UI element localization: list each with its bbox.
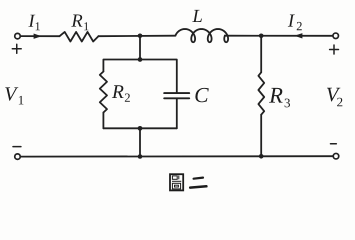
inductor L (175, 29, 228, 42)
wire top rail R1 to L (98, 35, 175, 38)
label R2 (112, 85, 130, 102)
terminal bottom-right (333, 153, 339, 159)
junction dot bottom rail center (138, 154, 143, 159)
wire C bottom lead (176, 99, 178, 128)
wire bottom rail (21, 155, 334, 157)
junction dot bottom rail R3 (259, 154, 264, 159)
wire parallel loop top (103, 60, 176, 93)
arrow I1 (34, 34, 42, 39)
wire parallel loop bottom (103, 127, 176, 129)
resistor R1 (60, 32, 99, 42)
capacitor C bottom plate (164, 97, 189, 99)
terminal top-right (333, 33, 339, 39)
junction dot R3 top (259, 34, 264, 39)
junction dot loop bottom (138, 126, 143, 131)
minus sign bottom-left (13, 146, 21, 148)
junction dot node A top (138, 34, 143, 39)
wire top rail left segment (20, 35, 59, 37)
label C (195, 88, 208, 102)
label I2 (288, 14, 302, 30)
label R3 (269, 88, 290, 107)
label V2 (327, 88, 342, 107)
junction dot loop top (138, 57, 143, 62)
label V1 (5, 87, 23, 104)
resistor R3 (258, 72, 264, 114)
label L (192, 10, 202, 22)
terminal top-left (15, 33, 21, 39)
terminal bottom-left (15, 154, 21, 160)
caption character tu (figure) (170, 174, 183, 190)
plus sign top-left (12, 48, 21, 50)
minus sign bottom-right (331, 143, 337, 145)
wire top rail L to right terminal (225, 35, 333, 37)
capacitor C top plate (164, 92, 189, 94)
label I1 (28, 15, 40, 31)
wire R3 top lead (260, 36, 262, 73)
wire R2 bottom lead (102, 113, 104, 129)
wire loop bottom to bottom rail (139, 128, 141, 156)
arrow I2 (294, 33, 302, 38)
label R1 (71, 14, 88, 30)
wire R3 bottom lead (260, 115, 262, 157)
wire vertical node A down to parallel loop (139, 36, 141, 60)
caption character er (two) (190, 178, 206, 188)
plus sign top-right (330, 49, 339, 51)
resistor R2 (100, 72, 107, 113)
